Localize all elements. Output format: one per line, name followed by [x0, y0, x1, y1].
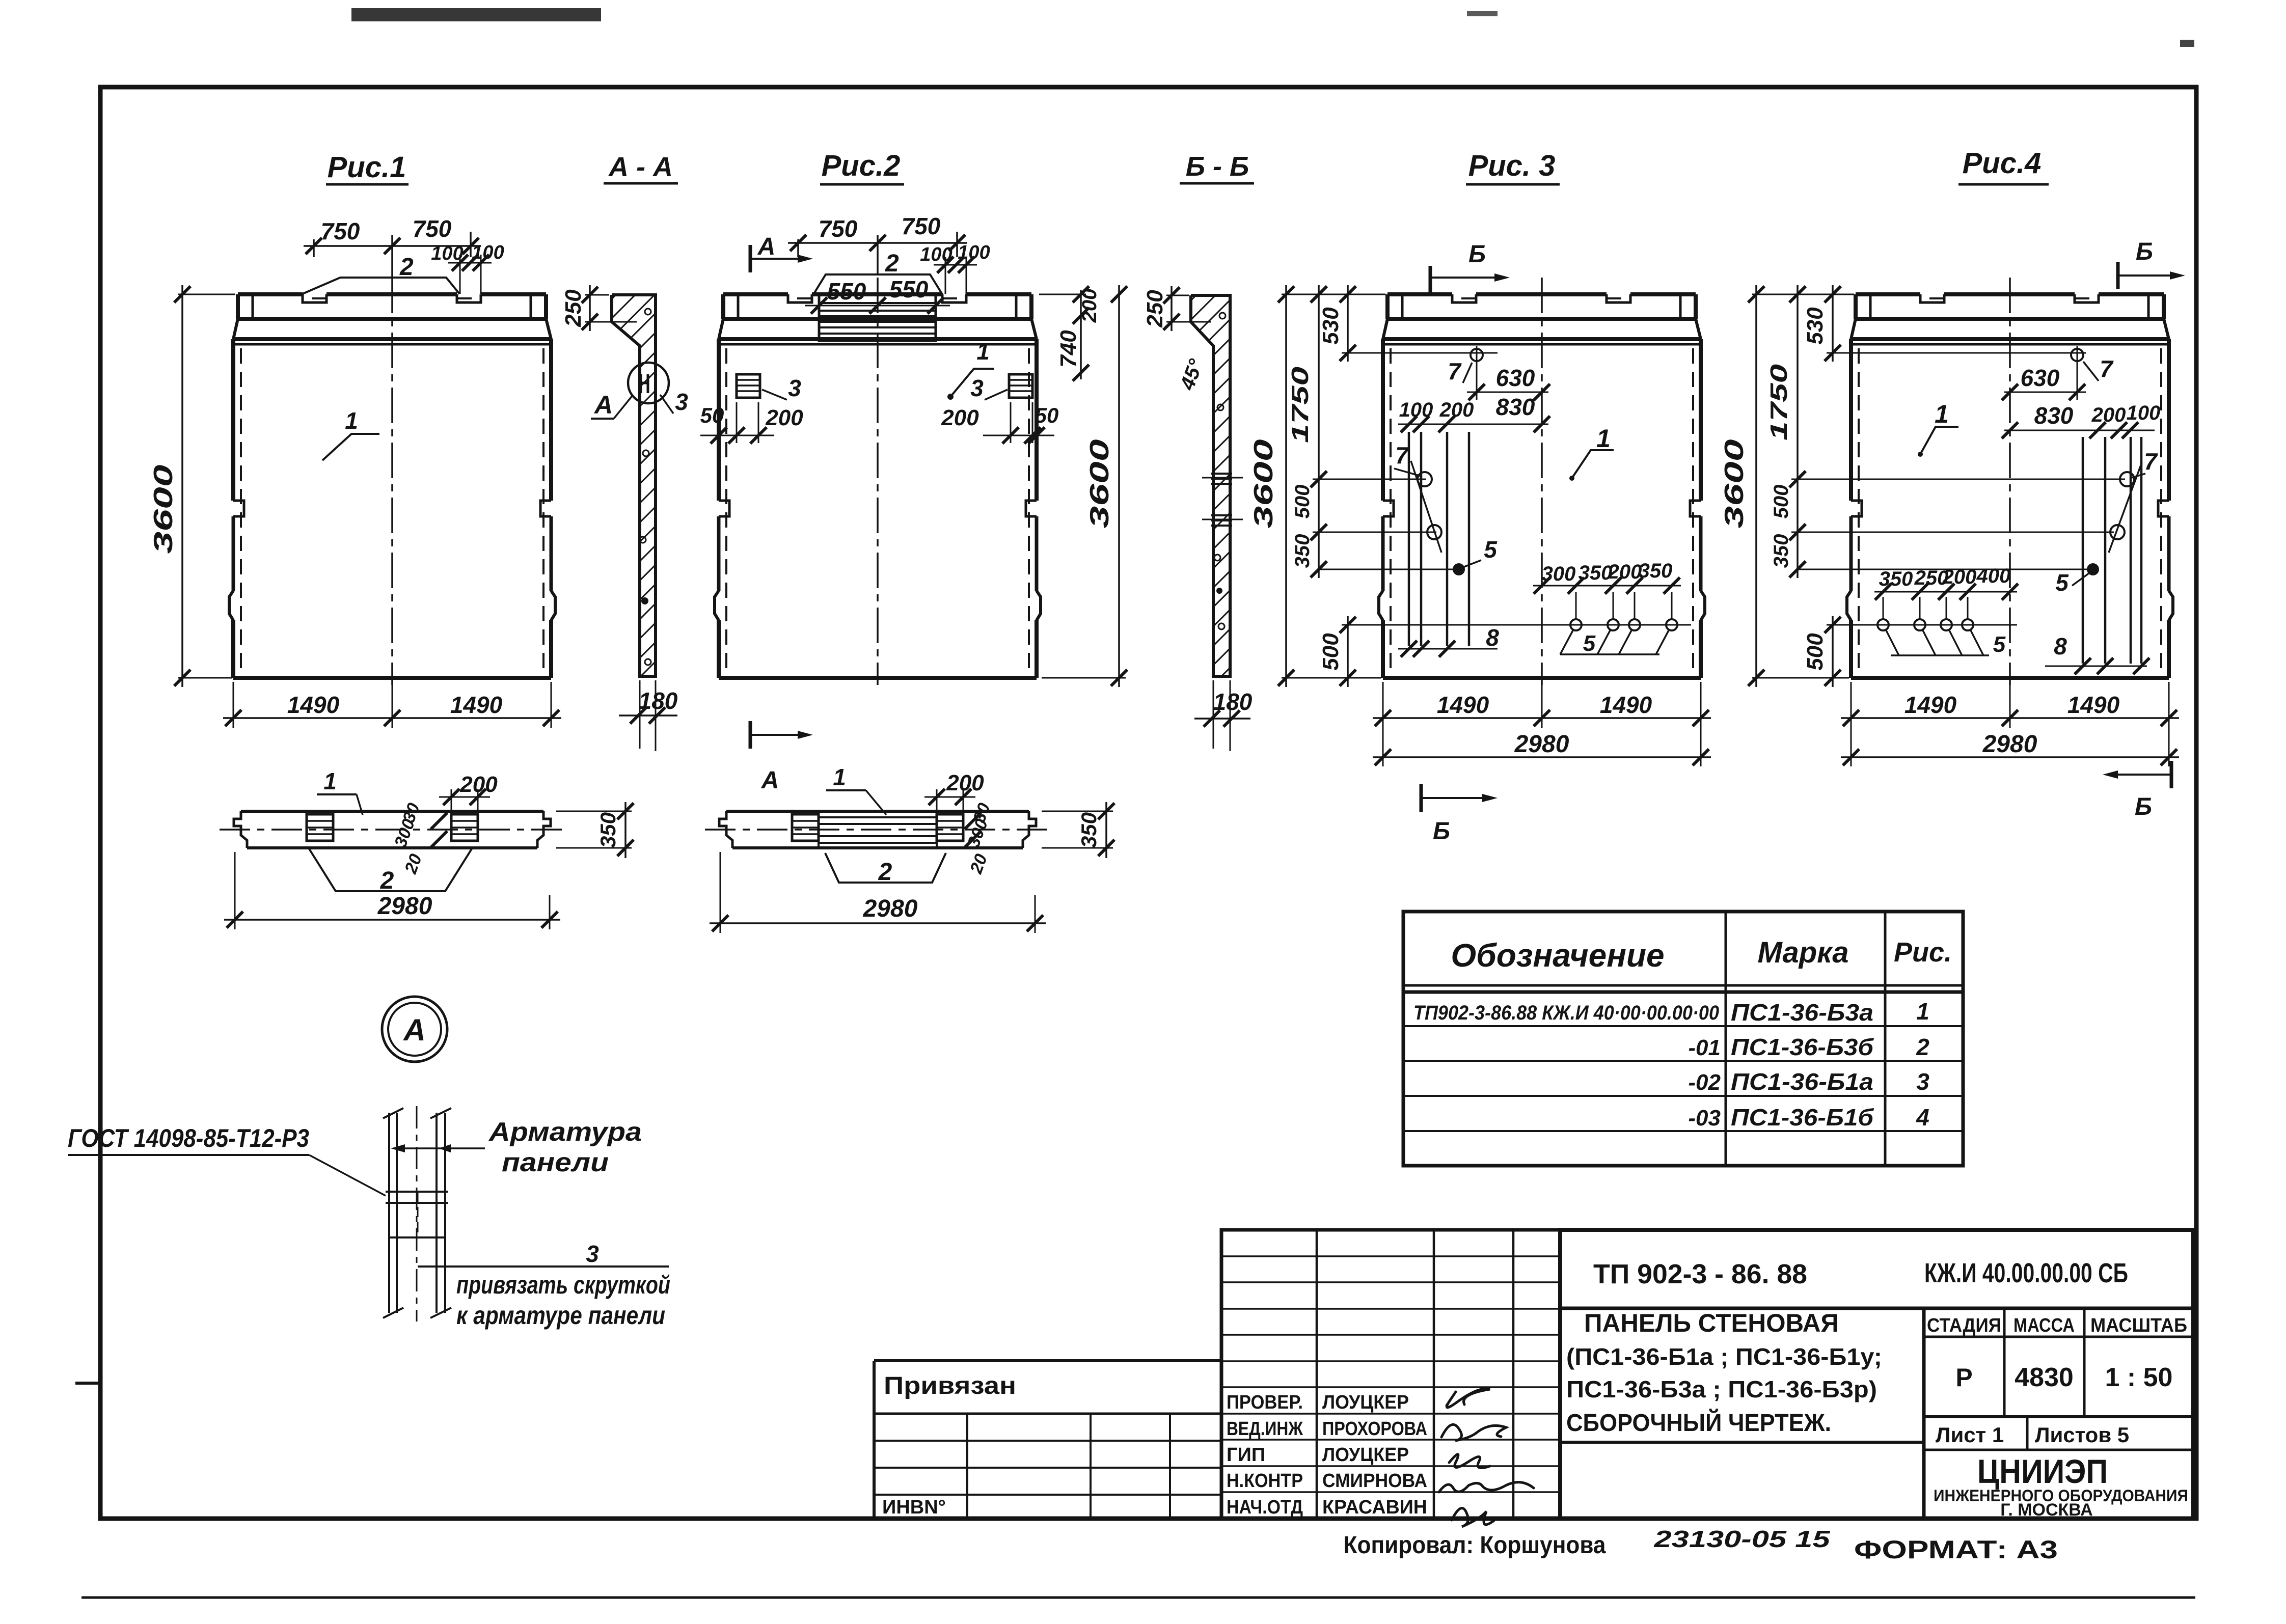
svg-text:ПС1-36-Б3а ; ПС1-36-Б3р): ПС1-36-Б3а ; ПС1-36-Б3р)	[1566, 1376, 1877, 1402]
Рис.2 callout bracket 2	[813, 274, 942, 294]
svg-text:(ПС1-36-Б1а ; ПС1-36-Б1у;: (ПС1-36-Б1а ; ПС1-36-Б1у;	[1566, 1343, 1882, 1370]
svg-text:ПАНЕЛЬ СТЕНОВАЯ: ПАНЕЛЬ СТЕНОВАЯ	[1584, 1309, 1839, 1337]
Рис.3 anchor circle 7 top	[1471, 349, 1483, 361]
svg-text:350: 350	[1579, 562, 1613, 584]
Рис.4 circle 5	[2087, 563, 2099, 575]
svg-text:500: 500	[1803, 633, 1828, 671]
svg-text:Рис.: Рис.	[1894, 937, 1952, 968]
Рис.3 dim 1490 1490	[1382, 682, 1384, 728]
Рис.1 dim 1490 1490	[233, 682, 234, 728]
Б-Б dim 180	[1213, 680, 1214, 749]
Рис.3 circle 5	[1453, 563, 1465, 575]
svg-text:Рис.1: Рис.1	[328, 151, 406, 184]
svg-text:3600: 3600	[1720, 439, 1749, 528]
svg-text:ПС1-36-Б3б: ПС1-36-Б3б	[1731, 1034, 1874, 1060]
svg-text:3: 3	[788, 375, 801, 401]
svg-text:СТАДИЯ: СТАДИЯ	[1927, 1315, 2001, 1336]
А-А weld item H	[640, 374, 642, 393]
Б-Б dim 250	[1166, 295, 1189, 296]
svg-text:1490: 1490	[1437, 692, 1489, 718]
svg-text:1: 1	[345, 407, 358, 434]
svg-text:7: 7	[1395, 442, 1409, 469]
svg-text:7: 7	[2100, 355, 2114, 382]
svg-text:Б: Б	[1433, 818, 1450, 845]
svg-text:5: 5	[1484, 536, 1498, 563]
Рис.4 anchor flags with label 5	[1891, 654, 1989, 656]
svg-text:350: 350	[596, 812, 620, 848]
svg-text:Р: Р	[1955, 1363, 1972, 1392]
Рис.3 dim 630	[1467, 392, 1548, 393]
plan2 dim 200	[936, 789, 938, 812]
svg-text:-02: -02	[1688, 1070, 1721, 1095]
Рис.3 loop circles 7	[1418, 472, 1432, 486]
Рис.4 bottom anchors group	[1877, 619, 1889, 630]
bottom sheet edge line	[81, 1597, 2195, 1599]
scanner smudge top	[351, 8, 601, 21]
svg-text:МАССА: МАССА	[2013, 1315, 2075, 1336]
svg-text:Б: Б	[2136, 238, 2153, 265]
svg-text:830: 830	[1496, 394, 1535, 420]
Рис.3 bottom anchors group	[1570, 619, 1582, 630]
svg-text:-03: -03	[1688, 1106, 1721, 1131]
svg-text:А: А	[402, 1013, 425, 1047]
svg-text:Привязан: Привязан	[884, 1372, 1016, 1399]
svg-text:ЛОУЦКЕР: ЛОУЦКЕР	[1322, 1444, 1409, 1466]
svg-text:Рис.2: Рис.2	[822, 149, 901, 182]
svg-text:Б: Б	[1468, 241, 1486, 268]
А-А dim 180	[639, 680, 641, 749]
svg-text:2980: 2980	[1514, 731, 1569, 758]
svg-text:50: 50	[700, 403, 724, 427]
svg-text:1490: 1490	[450, 692, 503, 718]
Рис.4 dim 1490 1490	[1850, 682, 1852, 728]
svg-text:ПС1-36-Б1а: ПС1-36-Б1а	[1731, 1068, 1873, 1095]
node A centerline	[416, 1106, 418, 1322]
svg-text:-01: -01	[1688, 1035, 1721, 1060]
А-А hatching	[126, 290, 1743, 687]
svg-text:2: 2	[878, 859, 892, 886]
svg-text:Г. МОСКВА: Г. МОСКВА	[2000, 1500, 2092, 1520]
Рис.3 section mark Б bottom	[1420, 784, 1423, 812]
svg-text:НАЧ.ОТД: НАЧ.ОТД	[1227, 1497, 1303, 1518]
plan2 dim 350 right	[1042, 811, 1113, 812]
svg-text:100: 100	[431, 243, 463, 264]
svg-text:630: 630	[1496, 365, 1535, 391]
Рис.1 dim 750 750	[313, 239, 315, 257]
privjazan table	[874, 1359, 1221, 1362]
svg-text:2: 2	[1916, 1034, 1929, 1060]
node A detail circle	[382, 997, 447, 1062]
Рис.3 bottom dim 500	[1347, 616, 1349, 687]
Рис.4 vertical bars item 8	[2082, 437, 2084, 664]
svg-text:3: 3	[586, 1241, 599, 1267]
svg-text:ПС1-36-Б3а: ПС1-36-Б3а	[1731, 999, 1873, 1026]
svg-text:1: 1	[1916, 998, 1929, 1025]
svg-text:1490: 1490	[1904, 692, 1957, 718]
svg-text:750: 750	[321, 218, 360, 244]
Рис.2 embed plate 3 right	[1009, 374, 1032, 398]
svg-text:панели: панели	[502, 1148, 609, 1177]
signature table	[1221, 1230, 1560, 1519]
svg-text:750: 750	[819, 215, 858, 242]
plan1 dim 350 right	[556, 811, 632, 812]
svg-text:3: 3	[675, 389, 688, 415]
svg-text:200: 200	[946, 770, 984, 795]
svg-text:1490: 1490	[287, 692, 340, 718]
spec table Обозначение/Марка/Рис	[1403, 912, 1963, 1166]
Рис.1 item label 1	[322, 434, 379, 460]
svg-text:8: 8	[1486, 624, 1499, 651]
svg-text:1: 1	[1935, 400, 1949, 428]
svg-text:250: 250	[561, 289, 586, 327]
plan2 bracket label 2	[825, 853, 946, 883]
svg-text:740: 740	[1056, 330, 1081, 368]
Рис.2 embed plate 3 left	[737, 374, 760, 398]
Рис.4 row extension lines	[1827, 352, 2086, 354]
Рис.1 centerline	[391, 278, 393, 685]
svg-text:350: 350	[1770, 534, 1792, 568]
svg-text:1490: 1490	[1600, 692, 1652, 718]
Рис.3 dim 2980	[1382, 728, 1384, 766]
Рис.2 dim 100 100	[945, 257, 946, 294]
fold mark left	[75, 1382, 100, 1385]
plan view 2 plan view outline	[705, 811, 1050, 848]
svg-text:Б - Б: Б - Б	[1186, 151, 1249, 182]
svg-text:550: 550	[827, 278, 866, 305]
svg-text:750: 750	[413, 215, 452, 242]
node A wire tie	[386, 1191, 448, 1193]
Рис.2 dim 3600 right	[1042, 677, 1126, 679]
Рис.3 dim 3600 left	[1282, 294, 1385, 295]
svg-text:СМИРНОВА: СМИРНОВА	[1322, 1470, 1427, 1492]
svg-text:200: 200	[1608, 561, 1642, 583]
svg-text:500: 500	[1770, 485, 1792, 519]
svg-text:2980: 2980	[377, 893, 432, 920]
plan1 dim 2980	[234, 852, 236, 929]
Рис.3 left chain 1750/500/350	[1318, 285, 1320, 578]
svg-text:3600: 3600	[1085, 439, 1114, 528]
svg-text:630: 630	[2021, 365, 2060, 391]
svg-text:СБОРОЧНЫЙ ЧЕРТЕЖ.: СБОРОЧНЫЙ ЧЕРТЕЖ.	[1566, 1409, 1831, 1437]
Рис.2 dim 200 50 right	[1036, 428, 1038, 443]
svg-text:Рис.4: Рис.4	[1963, 147, 2042, 180]
svg-text:к арматуре панели: к арматуре панели	[456, 1301, 665, 1330]
Рис.3 row extension lines	[1342, 352, 1498, 354]
Рис.2 ribbed band	[819, 294, 936, 341]
svg-text:ПС1-36-Б1б: ПС1-36-Б1б	[1731, 1104, 1874, 1131]
svg-text:Марка: Марка	[1757, 936, 1848, 969]
Рис.2 dim 50 200 left	[718, 428, 720, 443]
border frame	[98, 85, 2198, 90]
svg-text:2980: 2980	[1982, 731, 2037, 758]
svg-text:350: 350	[1879, 568, 1913, 590]
svg-text:1: 1	[1596, 424, 1611, 453]
svg-text:100: 100	[1399, 399, 1433, 421]
svg-text:Лист 1: Лист 1	[1936, 1423, 2004, 1447]
Рис.3 anchor flags with label 5	[1560, 653, 1659, 655]
svg-text:КРАСАВИН: КРАСАВИН	[1322, 1497, 1427, 1518]
svg-text:Н.КОНТР: Н.КОНТР	[1227, 1470, 1303, 1492]
svg-text:300: 300	[1542, 563, 1576, 585]
А-А dim 250	[585, 294, 609, 296]
svg-text:2: 2	[399, 254, 414, 281]
svg-text:180: 180	[1213, 689, 1253, 715]
plan1 bracket label 2	[309, 849, 472, 891]
node A rebar bars	[388, 1113, 390, 1313]
svg-text:А - А: А - А	[608, 152, 673, 182]
Рис.4 dim 3600 left	[1752, 294, 1854, 295]
svg-text:500: 500	[1291, 485, 1314, 519]
Рис.1 dim 100 100	[459, 255, 461, 294]
А-А detail circle marker	[628, 363, 669, 403]
Рис.4 loop circles 7	[2120, 472, 2134, 486]
svg-text:1490: 1490	[2067, 692, 2120, 718]
svg-text:200: 200	[459, 772, 498, 797]
svg-text:5: 5	[2055, 569, 2069, 596]
svg-text:3: 3	[1916, 1068, 1929, 1095]
svg-text:350: 350	[1291, 534, 1314, 568]
svg-text:1: 1	[976, 338, 990, 365]
svg-text:1: 1	[323, 768, 337, 794]
svg-text:привязать скруткой: привязать скруткой	[456, 1271, 670, 1299]
svg-text:100: 100	[472, 242, 504, 263]
svg-text:МАСШТАБ: МАСШТАБ	[2090, 1315, 2187, 1336]
svg-text:530: 530	[1803, 307, 1828, 345]
svg-text:250: 250	[1142, 290, 1167, 328]
Рис.3 vertical bars item 8	[1408, 432, 1410, 646]
Рис.1 panel outline	[229, 278, 555, 685]
Рис.2 dim 550 550	[819, 312, 820, 341]
svg-text:200: 200	[1078, 289, 1101, 323]
svg-text:4830: 4830	[2015, 1363, 2074, 1392]
svg-text:ФОРМАТ: А3: ФОРМАТ: А3	[1854, 1535, 2058, 1564]
stamp list row	[1924, 1449, 2193, 1451]
svg-text:200: 200	[2091, 404, 2126, 426]
svg-text:830: 830	[2034, 402, 2074, 429]
svg-text:1 : 50: 1 : 50	[2105, 1363, 2173, 1392]
svg-text:180: 180	[639, 687, 678, 714]
Рис.4 dim 630	[2004, 392, 2086, 393]
svg-text:Листов 5: Листов 5	[2035, 1423, 2129, 1447]
svg-text:50: 50	[1035, 403, 1059, 427]
Рис.3 dim 530	[1347, 285, 1349, 362]
svg-text:ТП 902-3 - 86. 88: ТП 902-3 - 86. 88	[1593, 1259, 1807, 1289]
Рис.3 dim 100 200 830	[1398, 424, 1548, 425]
Рис.4 bottom dim 500	[1832, 616, 1834, 687]
svg-text:ЦНИИЭП: ЦНИИЭП	[1977, 1452, 2108, 1490]
svg-text:8: 8	[2054, 633, 2067, 659]
svg-text:А: А	[761, 767, 779, 794]
svg-text:550: 550	[889, 276, 929, 302]
svg-text:1750: 1750	[1765, 364, 1792, 441]
svg-text:530: 530	[1318, 307, 1343, 345]
svg-text:2: 2	[885, 250, 899, 277]
svg-text:ЛОУЦКЕР: ЛОУЦКЕР	[1322, 1392, 1409, 1413]
svg-text:ГИП: ГИП	[1227, 1444, 1265, 1466]
svg-text:1750: 1750	[1287, 366, 1313, 443]
svg-text:1: 1	[833, 764, 846, 790]
plan1 dim 200	[451, 789, 452, 812]
svg-text:ПРОВЕР.: ПРОВЕР.	[1227, 1392, 1303, 1413]
stamp stadija massa masshtab	[1924, 1336, 2193, 1338]
Рис.3 panel outline	[1379, 278, 1705, 685]
Рис.2 panel outline	[715, 278, 1041, 685]
svg-text:4: 4	[1916, 1104, 1929, 1131]
svg-text:2980: 2980	[863, 895, 918, 922]
svg-text:7: 7	[2144, 448, 2158, 475]
svg-text:2: 2	[380, 867, 394, 894]
svg-text:100: 100	[2127, 402, 2161, 424]
svg-text:ТП902-3-86.88 КЖ.И 40·00·00.00: ТП902-3-86.88 КЖ.И 40·00·00.00·00	[1413, 1002, 1719, 1024]
Рис.4 dim 2980	[1850, 728, 1852, 766]
svg-text:7: 7	[1448, 358, 1462, 384]
Рис.4 section mark Б top	[2116, 262, 2120, 289]
svg-text:Рис. 3: Рис. 3	[1468, 149, 1556, 182]
Рис.2 dim 750 750	[797, 239, 799, 257]
svg-text:200: 200	[1439, 399, 1474, 421]
Рис.4 dim 830 200 100	[2004, 430, 2155, 431]
svg-text:Б: Б	[2135, 793, 2152, 820]
Рис.1 callout bracket for item 2	[303, 278, 459, 294]
svg-text:400: 400	[1976, 565, 2011, 587]
svg-text:3: 3	[970, 375, 984, 401]
Б-Б section outline	[1191, 295, 1230, 676]
svg-text:23130-05 15: 23130-05 15	[1653, 1526, 1831, 1552]
Рис.1 dim 3600 left	[178, 294, 235, 295]
svg-text:200: 200	[941, 405, 979, 430]
Рис.4 left chain 1750/500/350	[1797, 285, 1799, 578]
svg-text:А: А	[593, 391, 613, 419]
svg-text:200: 200	[1942, 566, 1977, 588]
svg-text:100: 100	[920, 244, 952, 265]
svg-text:200: 200	[765, 405, 803, 430]
svg-text:ИНВN°: ИНВN°	[882, 1497, 946, 1518]
Рис.4 centerline	[2009, 278, 2011, 685]
svg-text:Копировал: Коршунова: Копировал: Коршунова	[1344, 1532, 1606, 1559]
Рис.2 section mark А bottom	[749, 721, 752, 749]
svg-text:350: 350	[1077, 812, 1101, 848]
svg-text:ПРОХОРОВА: ПРОХОРОВА	[1322, 1418, 1427, 1440]
svg-text:500: 500	[1318, 633, 1343, 671]
svg-text:350: 350	[1639, 560, 1673, 582]
Рис.2 dim 200 740 right chain	[1039, 294, 1086, 295]
plan view 1 plan view outline	[220, 811, 565, 848]
svg-text:5: 5	[1993, 632, 2006, 657]
svg-text:ГОСТ 14098-85-Т12-Р3: ГОСТ 14098-85-Т12-Р3	[68, 1124, 309, 1152]
Рис.4 section mark Б bottom	[2170, 761, 2173, 788]
Рис.2 section mark А top	[749, 245, 752, 272]
Рис.4 anchor circle 7 top	[2071, 349, 2083, 361]
Рис.3 section mark Б top	[1429, 266, 1432, 294]
svg-text:750: 750	[902, 213, 941, 239]
signatures squiggles	[1439, 1389, 1534, 1527]
svg-text:ВЕД.ИНЖ: ВЕД.ИНЖ	[1227, 1418, 1303, 1440]
Рис.3 centerline	[1541, 278, 1543, 685]
Рис.2 centerline	[877, 278, 879, 685]
svg-text:Обозначение: Обозначение	[1451, 937, 1664, 974]
Рис.4 dim 530	[1832, 285, 1834, 362]
Б-Б embedded bands	[1211, 473, 1232, 475]
svg-text:Арматура: Арматура	[488, 1117, 642, 1147]
svg-text:100: 100	[958, 242, 990, 263]
node A break marks	[383, 1108, 403, 1118]
title block stamp outline	[1560, 1230, 2193, 1519]
svg-text:5: 5	[1583, 631, 1596, 656]
svg-text:3600: 3600	[1249, 439, 1278, 528]
plan2 dim 2980	[720, 852, 721, 933]
svg-text:А: А	[757, 233, 776, 260]
svg-text:3600: 3600	[149, 464, 178, 554]
Рис.4 panel outline	[1847, 278, 2173, 685]
svg-text:КЖ.И 40.00.00.00 СБ: КЖ.И 40.00.00.00 СБ	[1924, 1258, 2128, 1288]
